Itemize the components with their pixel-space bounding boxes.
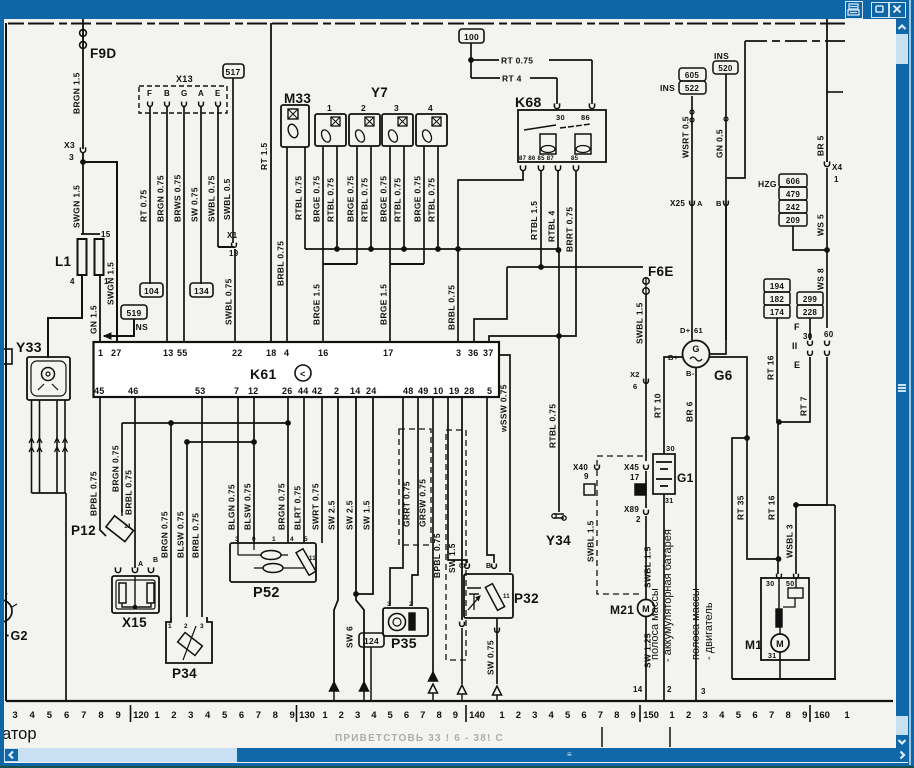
bottom baseline xyxy=(6,700,893,702)
svg-text:5: 5 xyxy=(565,710,571,721)
fuse block terminals xyxy=(809,318,811,340)
wire X3 branch to pin27 xyxy=(83,162,117,342)
wire top link xyxy=(745,40,845,42)
wire BRBL 0.75 bus to pin3 xyxy=(458,171,523,342)
svg-text:14: 14 xyxy=(350,386,361,396)
svg-text:P35: P35 xyxy=(391,635,417,651)
svg-text:4: 4 xyxy=(290,536,294,543)
svg-text:19: 19 xyxy=(229,249,239,258)
titlebar close button xyxy=(889,2,907,18)
svg-text:B: B xyxy=(164,89,170,98)
code box 519 INS xyxy=(121,305,147,319)
switch P52 contacts xyxy=(261,551,281,560)
svg-text:BRGE 0.75: BRGE 0.75 xyxy=(379,176,389,222)
svg-text:SW 0.75: SW 0.75 xyxy=(190,187,200,222)
wire BRGN to P34 pin1 xyxy=(170,423,172,617)
wire box100 down xyxy=(470,43,472,78)
footer table lines xyxy=(601,727,603,747)
svg-text:36: 36 xyxy=(468,348,479,358)
svg-text:4: 4 xyxy=(284,348,289,358)
wire BLSW to P34 pin2 xyxy=(186,442,188,617)
wire pin26 BRGN to P52 xyxy=(287,397,289,543)
svg-text:2: 2 xyxy=(409,601,413,608)
svg-text:wSSW 0.75: wSSW 0.75 xyxy=(499,384,509,433)
svg-text:45: 45 xyxy=(94,386,105,396)
wire SWBL 0.75 xyxy=(217,107,219,247)
wire F6E to pin36 xyxy=(474,267,507,342)
svg-text:1: 1 xyxy=(327,103,332,113)
svg-text:26: 26 xyxy=(282,386,293,396)
svg-text:4: 4 xyxy=(30,710,36,721)
svg-text:X3: X3 xyxy=(64,140,75,150)
wire injector3 BRGE leg xyxy=(389,146,391,264)
svg-text:SWRT 0.75: SWRT 0.75 xyxy=(311,483,321,530)
svg-text:SWBL 0.75: SWBL 0.75 xyxy=(207,175,217,222)
svg-text:22: 22 xyxy=(232,348,243,358)
svg-text:BRGE 0.75: BRGE 0.75 xyxy=(413,176,423,222)
svg-text:86: 86 xyxy=(581,113,590,122)
svg-text:6: 6 xyxy=(581,710,586,721)
svg-text:5: 5 xyxy=(388,710,394,721)
injector Y7-4 symbol xyxy=(432,117,441,126)
svg-text:B: B xyxy=(716,199,722,208)
wire BRGE 1.5 inj34 link xyxy=(390,263,424,265)
svg-text:1: 1 xyxy=(834,175,839,184)
svg-text:11: 11 xyxy=(124,523,132,530)
svg-text:SW 1.5: SW 1.5 xyxy=(362,500,372,530)
wire pin7 BLGN to P52 xyxy=(237,397,239,543)
svg-text:242: 242 xyxy=(786,203,800,212)
svg-text:P34: P34 xyxy=(172,666,197,681)
wire box124 ground xyxy=(370,647,372,701)
svg-text:61: 61 xyxy=(694,326,703,335)
svg-text:4: 4 xyxy=(719,710,725,721)
svg-text:INS: INS xyxy=(133,322,148,332)
svg-text:BPBL 0.75: BPBL 0.75 xyxy=(89,471,99,516)
svg-text:RT 7: RT 7 xyxy=(799,396,809,416)
svg-text:HZG: HZG xyxy=(758,179,777,189)
node injector1 RTBL bus junction xyxy=(335,247,340,252)
svg-text:2: 2 xyxy=(334,386,339,396)
svg-text:A: A xyxy=(198,89,204,98)
wire injector4 RTBL leg xyxy=(437,146,439,249)
svg-text:P32: P32 xyxy=(514,591,539,606)
wire ground right drop xyxy=(834,505,836,679)
code boxes 299 228 xyxy=(797,292,823,305)
wire RT 0.75 xyxy=(149,107,151,284)
svg-text:522: 522 xyxy=(685,84,699,93)
svg-text:SW 2.5: SW 2.5 xyxy=(327,500,337,530)
sensor G2 xyxy=(0,600,12,622)
svg-text:RTBL 0.75: RTBL 0.75 xyxy=(294,176,304,220)
relay K68 contact xyxy=(524,125,556,130)
connector X13 dashed box xyxy=(139,86,227,113)
svg-text:519: 519 xyxy=(126,308,141,318)
svg-text:WSRT 0.5: WSRT 0.5 xyxy=(681,116,691,158)
code boxes 605 522 xyxy=(679,68,706,81)
svg-text:605: 605 xyxy=(685,71,699,80)
coil L1 winding A xyxy=(78,239,87,275)
injector Y7-1 symbol xyxy=(331,117,340,126)
svg-text:1: 1 xyxy=(322,710,328,721)
svg-text:X40: X40 xyxy=(573,463,588,472)
svg-text:B+: B+ xyxy=(668,353,679,362)
svg-text:174: 174 xyxy=(770,308,784,317)
svg-text:5: 5 xyxy=(487,386,492,396)
relay K68 pins bottom xyxy=(520,165,525,170)
coil L1 winding B xyxy=(95,239,104,275)
svg-text:M: M xyxy=(776,639,784,649)
ECU K61 box xyxy=(94,342,500,397)
svg-text:ПРИВЕТСТОВЬ 33 ! 6 - 38! С: ПРИВЕТСТОВЬ 33 ! 6 - 38! С xyxy=(335,733,504,744)
svg-text:RTBL 4: RTBL 4 xyxy=(547,210,557,242)
svg-text:6: 6 xyxy=(404,710,409,721)
injector Y7-3 symbol xyxy=(398,117,407,126)
svg-text:3: 3 xyxy=(355,710,360,721)
svg-text:9: 9 xyxy=(631,710,636,721)
svg-text:RT 35: RT 35 xyxy=(736,495,746,520)
wire WSRT 0.5 xyxy=(691,96,693,340)
wire pin53 BRBL to P34 pin3 xyxy=(201,397,203,617)
svg-text:4: 4 xyxy=(428,103,433,113)
svg-text:124: 124 xyxy=(364,636,379,646)
wire HZG to WS junction xyxy=(793,226,827,250)
wire BRGN to P12 xyxy=(121,423,123,512)
code box 124 xyxy=(359,633,384,647)
relay K68 pins top xyxy=(554,103,559,108)
svg-text:BLRT 0.75: BLRT 0.75 xyxy=(293,485,303,530)
svg-text:RTBL 0.75: RTBL 0.75 xyxy=(427,178,437,222)
injector Y7-4 box xyxy=(416,114,447,146)
svg-text:- аккумуляторная батарея: - аккумуляторная батарея xyxy=(662,529,674,662)
wire SWBL jog to X1 xyxy=(218,246,234,248)
svg-text:GN 0.5: GN 0.5 xyxy=(715,129,725,158)
svg-text:50: 50 xyxy=(786,581,794,588)
svg-text:1: 1 xyxy=(844,710,850,721)
svg-text:INS: INS xyxy=(660,83,675,93)
wire pin10 BRBL xyxy=(432,397,434,678)
svg-text:9: 9 xyxy=(116,710,121,721)
fuse F9D wire top xyxy=(82,19,84,64)
svg-text:7: 7 xyxy=(769,710,774,721)
svg-text:X2: X2 xyxy=(630,370,640,379)
svg-text:1: 1 xyxy=(669,710,675,721)
svg-text:RTBL 0.75: RTBL 0.75 xyxy=(393,178,403,222)
svg-text:G1: G1 xyxy=(677,471,694,485)
svg-text:BPBL 0.75: BPBL 0.75 xyxy=(432,533,442,578)
svg-text:1: 1 xyxy=(168,623,172,630)
svg-text:28: 28 xyxy=(464,386,475,396)
wire F9D to X3 xyxy=(82,64,84,149)
svg-text:120: 120 xyxy=(133,710,149,721)
svg-text:RTBL 1.5: RTBL 1.5 xyxy=(529,201,539,240)
wire Y33 to base xyxy=(65,493,67,701)
svg-text:RTBL 0.75: RTBL 0.75 xyxy=(548,404,558,448)
node injector2 RTBL bus junction xyxy=(369,247,374,252)
svg-text:140: 140 xyxy=(469,710,485,721)
wire RTBL 1.5 xyxy=(540,171,542,267)
svg-text:4: 4 xyxy=(70,277,75,286)
svg-text:8: 8 xyxy=(98,710,103,721)
svg-text:2: 2 xyxy=(361,103,366,113)
svg-text:15: 15 xyxy=(101,230,111,239)
alternator G6 xyxy=(683,341,710,368)
svg-text:9: 9 xyxy=(584,472,589,481)
fuse F6E symbol xyxy=(643,278,649,284)
wire GN 0.5 xyxy=(725,74,727,340)
svg-text:RT 1.5: RT 1.5 xyxy=(259,142,269,170)
pump P35 symbol xyxy=(389,614,406,631)
injector Y7-3 box xyxy=(382,114,413,146)
injector Y7-2 box xyxy=(349,114,380,146)
svg-text:2: 2 xyxy=(636,515,641,524)
svg-text:4: 4 xyxy=(371,710,377,721)
coil L1 top link xyxy=(81,233,100,235)
svg-text:1: 1 xyxy=(272,536,276,543)
wire pin14 SW 2.5 xyxy=(356,397,364,682)
wire Y33 HT lead 3 xyxy=(56,400,58,493)
wire Y33 HT lead 4 xyxy=(64,400,66,493)
svg-text:517: 517 xyxy=(225,67,240,77)
svg-text:3: 3 xyxy=(69,152,74,162)
wire RT 10 xyxy=(664,357,682,454)
svg-text:9: 9 xyxy=(802,710,807,721)
svg-text:G: G xyxy=(181,89,188,98)
svg-text:3: 3 xyxy=(235,536,239,543)
svg-text:SWBL 1.5: SWBL 1.5 xyxy=(586,520,596,562)
wire P32 SW 0.75 ground xyxy=(496,618,498,684)
starter M1 pins xyxy=(777,574,782,579)
svg-text:BRGN 0.75: BRGN 0.75 xyxy=(111,445,121,492)
svg-text:X15: X15 xyxy=(122,615,147,630)
svg-text:9: 9 xyxy=(290,710,295,721)
node bus-K68 junction xyxy=(456,247,461,252)
wire pin42 SWRT to P52 xyxy=(321,397,323,543)
wire X3 to L1 xyxy=(82,152,84,234)
svg-text:134: 134 xyxy=(194,286,209,296)
svg-text:5: 5 xyxy=(736,710,742,721)
svg-text:2: 2 xyxy=(184,623,188,630)
svg-text:194: 194 xyxy=(770,282,784,291)
svg-text:46: 46 xyxy=(128,386,139,396)
wire GN to G6 D+ xyxy=(710,206,726,354)
svg-text:19: 19 xyxy=(449,386,460,396)
svg-text:BR 5: BR 5 xyxy=(816,135,826,156)
svg-text:BRGE 1.5: BRGE 1.5 xyxy=(312,284,322,325)
pump P35 box xyxy=(383,608,428,636)
svg-text:B: B xyxy=(153,557,158,564)
relay K68 box xyxy=(518,110,606,162)
svg-text:E: E xyxy=(215,89,221,98)
wire BR 6 ground xyxy=(695,368,697,701)
svg-text:полоса массы: полоса массы xyxy=(649,588,661,660)
svg-text:606: 606 xyxy=(786,177,800,186)
svg-text:18: 18 xyxy=(266,348,277,358)
svg-text:BRBL 0.75: BRBL 0.75 xyxy=(191,513,201,558)
svg-text:RTBL 0.75: RTBL 0.75 xyxy=(360,178,370,222)
titlebar print button xyxy=(845,1,863,19)
wire pin12 BLSW to P52 xyxy=(253,397,255,543)
starter M1 box xyxy=(761,578,809,660)
connector X15 box xyxy=(112,576,159,613)
svg-text:C: C xyxy=(459,563,464,570)
injector Y7-1 box xyxy=(315,114,346,146)
connector X1 xyxy=(232,243,237,248)
svg-text:9: 9 xyxy=(453,710,458,721)
svg-text:7: 7 xyxy=(81,710,86,721)
svg-text:12: 12 xyxy=(248,386,259,396)
dashed link box C xyxy=(597,456,643,594)
svg-text:- двигатель: - двигатель xyxy=(703,602,715,660)
svg-text:K61: K61 xyxy=(250,366,277,382)
svg-text:3: 3 xyxy=(701,687,706,696)
svg-text:60: 60 xyxy=(824,330,834,339)
svg-text:53: 53 xyxy=(195,386,206,396)
svg-text:A: A xyxy=(697,199,703,208)
valve M33 box xyxy=(281,105,309,147)
wire SWBL 1.5 from F6E xyxy=(645,294,647,461)
wire engine ground branch xyxy=(732,438,747,679)
starter M1 solenoid xyxy=(788,588,803,598)
svg-text:30: 30 xyxy=(556,113,565,122)
svg-text:F9D: F9D xyxy=(90,46,116,61)
wire injector1 RTBL leg xyxy=(336,146,338,249)
svg-text:SWBL 1.5: SWBL 1.5 xyxy=(643,546,653,588)
wire SWBL 0.5 xyxy=(232,78,234,243)
Y33 lead bus xyxy=(32,492,67,494)
svg-text:104: 104 xyxy=(144,286,159,296)
svg-text:L1: L1 xyxy=(55,254,72,269)
wire M21 SW 1.25 ground xyxy=(645,617,647,701)
svg-text:44: 44 xyxy=(298,386,309,396)
svg-text:SWGN 1.5: SWGN 1.5 xyxy=(72,185,82,228)
wire pin19 SW1.5 to P32 C xyxy=(448,397,467,563)
horizontal scrollbar xyxy=(4,748,896,762)
svg-text:3: 3 xyxy=(394,103,399,113)
wire pin24 SW 1.5 xyxy=(356,397,373,594)
svg-text:RT 10: RT 10 xyxy=(653,393,663,418)
svg-text:F6E: F6E xyxy=(648,264,674,279)
svg-text:BRBL 0.75: BRBL 0.75 xyxy=(447,285,457,330)
node injector4 RTBL bus junction xyxy=(436,247,441,252)
svg-text:17: 17 xyxy=(383,348,394,358)
svg-text:2: 2 xyxy=(339,710,344,721)
wire BRGE 1.5 inj12 link xyxy=(323,263,357,265)
wire pin44 BLRT to P52 xyxy=(303,397,305,543)
svg-text:4: 4 xyxy=(549,710,555,721)
wire RT 35 xyxy=(710,357,778,559)
svg-text:BRGN 0.75: BRGN 0.75 xyxy=(156,175,166,222)
temp sensor P12 symbol xyxy=(106,516,134,542)
motor M21 xyxy=(638,600,655,617)
wire SW 0.75 xyxy=(200,107,202,284)
svg-text:17: 17 xyxy=(630,473,640,482)
svg-text:полоса массы: полоса массы xyxy=(690,588,702,660)
sensor P32 box xyxy=(464,574,513,618)
svg-text:X45: X45 xyxy=(624,463,639,472)
wire RT 4 feed xyxy=(471,77,500,79)
svg-text:130: 130 xyxy=(299,710,315,721)
wire RT 7 xyxy=(779,357,810,422)
svg-text:5: 5 xyxy=(304,536,308,543)
svg-text:2: 2 xyxy=(171,710,176,721)
wire pin2 SW 2.5 xyxy=(334,397,338,682)
svg-text:520: 520 xyxy=(718,64,732,73)
svg-text:GRRT 0.75: GRRT 0.75 xyxy=(402,481,412,527)
svg-text:5: 5 xyxy=(222,710,228,721)
svg-text:7: 7 xyxy=(256,710,261,721)
ground triangle pin2 xyxy=(330,682,339,691)
svg-text:WS 8: WS 8 xyxy=(816,268,826,290)
svg-text:85: 85 xyxy=(571,156,579,162)
wire WSBL 3 xyxy=(796,357,827,574)
wire 519 to GN wire xyxy=(104,319,134,336)
svg-text:48: 48 xyxy=(403,386,414,396)
svg-text:30: 30 xyxy=(803,332,813,341)
svg-text:13: 13 xyxy=(163,348,174,358)
sensor P34 box xyxy=(166,617,212,663)
svg-text:37: 37 xyxy=(483,348,494,358)
svg-text:3: 3 xyxy=(703,710,708,721)
sensor P32 thermistor xyxy=(485,584,504,611)
svg-text:8: 8 xyxy=(436,710,441,721)
svg-text:30: 30 xyxy=(766,581,774,588)
svg-text:Y33: Y33 xyxy=(16,339,42,355)
injector supply bus xyxy=(305,248,559,250)
svg-text:1: 1 xyxy=(499,710,505,721)
svg-text:RTBL 0.75: RTBL 0.75 xyxy=(326,178,336,222)
connector X4 xyxy=(824,161,829,166)
svg-text:WSBL 3: WSBL 3 xyxy=(785,524,795,558)
svg-text:3: 3 xyxy=(456,348,461,358)
svg-text:BLSW 0.75: BLSW 0.75 xyxy=(176,511,186,558)
ground triangle P32 xyxy=(493,686,502,695)
svg-text:8: 8 xyxy=(614,710,619,721)
svg-text:K68: K68 xyxy=(515,94,542,110)
wire G1 ground strap xyxy=(663,494,665,701)
svg-text:RT 4: RT 4 xyxy=(502,74,522,84)
svg-text:E: E xyxy=(794,360,800,370)
wire WS 5 xyxy=(826,168,828,250)
svg-text:BRGN 0.75: BRGN 0.75 xyxy=(277,483,287,530)
svg-text:42: 42 xyxy=(312,386,323,396)
svg-text:31: 31 xyxy=(768,653,776,660)
svg-text:16: 16 xyxy=(318,348,329,358)
svg-text:1: 1 xyxy=(98,348,103,358)
bus line y423 xyxy=(122,422,288,424)
wire RT 16 upper xyxy=(776,318,778,422)
svg-text:BRBL 0.75: BRBL 0.75 xyxy=(124,470,134,515)
wire SWBL 0.75 to pin22 xyxy=(234,249,236,342)
svg-text:A: A xyxy=(138,561,143,568)
svg-text:BRWS 0.75: BRWS 0.75 xyxy=(173,174,183,222)
svg-text:8: 8 xyxy=(786,710,791,721)
svg-text:Y7: Y7 xyxy=(371,85,388,100)
wire injector4 BRGE leg xyxy=(423,146,425,264)
svg-text:G6: G6 xyxy=(714,368,733,383)
svg-text:B-: B- xyxy=(686,369,695,378)
code box 517 xyxy=(223,64,244,78)
svg-text:209: 209 xyxy=(786,216,800,225)
wire injector2 BRGE leg xyxy=(356,146,358,264)
svg-text:·G2: ·G2 xyxy=(6,629,28,643)
wire RTBL to Y34 xyxy=(558,250,560,512)
svg-text:RT 16: RT 16 xyxy=(766,355,776,380)
wire RTBL 4 xyxy=(557,171,559,250)
wire BRWS 0.75 xyxy=(183,107,185,342)
wire BRRT 0.75 xyxy=(489,171,576,342)
wire BR 5 xyxy=(826,15,828,162)
